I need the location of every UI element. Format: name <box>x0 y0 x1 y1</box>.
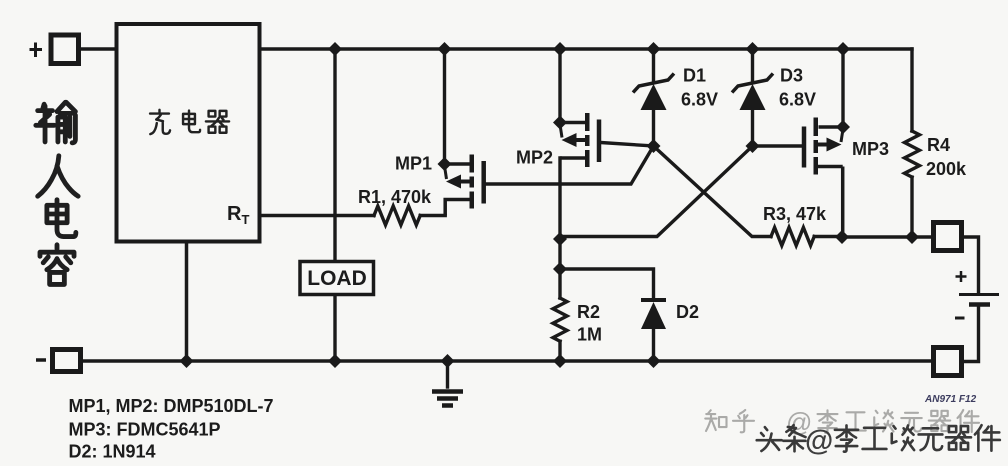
svg-text:MP3: FDMC5641P: MP3: FDMC5641P <box>69 420 221 440</box>
svg-text:1M: 1M <box>577 325 602 345</box>
svg-text:LOAD: LOAD <box>307 267 367 290</box>
svg-text:R1, 470k: R1, 470k <box>358 187 432 207</box>
svg-text:R2: R2 <box>577 302 600 322</box>
svg-text:200k: 200k <box>926 159 967 179</box>
svg-text:6.8V: 6.8V <box>681 90 718 110</box>
svg-text:R4: R4 <box>927 135 950 155</box>
svg-text:R3, 47k: R3, 47k <box>763 204 827 224</box>
svg-text:@: @ <box>805 425 833 457</box>
svg-text:MP2: MP2 <box>516 148 553 168</box>
svg-text:MP1: MP1 <box>395 154 432 174</box>
svg-text:D1: D1 <box>683 66 706 86</box>
svg-text:6.8V: 6.8V <box>779 90 816 110</box>
svg-text:MP3: MP3 <box>852 139 889 159</box>
svg-text:AN971 F12: AN971 F12 <box>924 394 977 405</box>
svg-text:D2: D2 <box>676 302 699 322</box>
svg-text:MP1, MP2: DMP510DL-7: MP1, MP2: DMP510DL-7 <box>69 396 274 416</box>
svg-text:D2: 1N914: D2: 1N914 <box>69 442 156 462</box>
svg-text:D3: D3 <box>780 66 803 86</box>
